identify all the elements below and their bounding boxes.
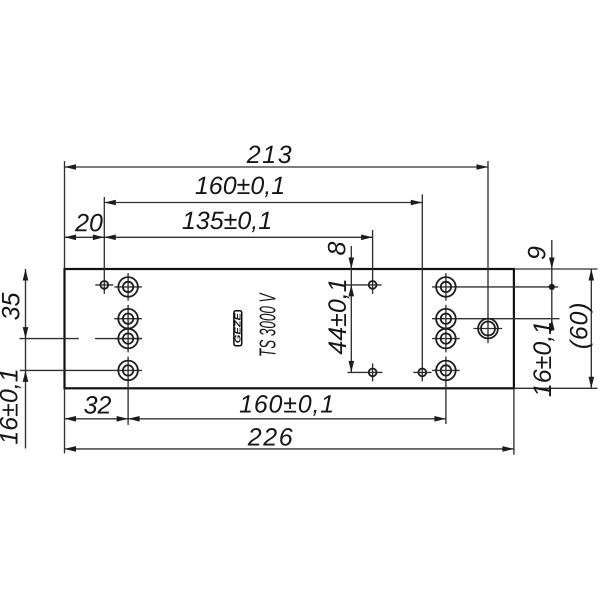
dimension line 60	[590, 269, 592, 388]
extension row2 right	[432, 318, 559, 320]
dimension line 35 and 16 left	[25, 269, 27, 449]
crosshairs left hole column	[114, 286, 142, 288]
dimension line 32 and 160 bottom	[65, 418, 446, 420]
svg-text:226: 226	[247, 423, 295, 451]
crosshair small hole top-left	[95, 284, 113, 286]
svg-text:TS 3000 V: TS 3000 V	[255, 292, 281, 357]
extension line small-hole column left	[103, 197, 105, 294]
extension plate bottom edge right	[514, 387, 598, 389]
extension line right hole column below	[445, 357, 447, 424]
hole right column row2	[436, 309, 456, 329]
svg-text:20: 20	[74, 209, 103, 237]
hole left column row1	[118, 277, 138, 297]
svg-text:(60): (60)	[566, 302, 594, 349]
svg-text:9: 9	[524, 246, 552, 260]
small hole top-mid	[369, 281, 377, 289]
dimension line 20 and 135	[65, 236, 373, 238]
extension line big-circle column	[487, 161, 489, 343]
svg-text:32: 32	[84, 391, 112, 419]
hole right column row3	[436, 329, 456, 349]
hole left column row2	[118, 309, 138, 329]
svg-text:35: 35	[0, 293, 26, 321]
hole right column row4	[436, 361, 456, 381]
dimension line 8 and 44	[350, 246, 352, 372]
hole left column row3	[118, 329, 138, 349]
svg-text:213: 213	[246, 141, 294, 169]
small hole bottom-right	[418, 369, 426, 377]
extension row4 left	[20, 369, 142, 371]
GEZE logo	[233, 311, 243, 346]
centerline small row bottom b	[413, 371, 431, 373]
dimension line 160 top	[104, 202, 422, 204]
extension line right edge below	[513, 388, 515, 454]
crosshair small hole bottom-mid vertical	[372, 363, 374, 381]
dimension line 226	[65, 448, 514, 450]
small hole top-left	[100, 281, 108, 289]
extension line left edge below	[64, 388, 66, 453]
svg-text:GEZE: GEZE	[233, 313, 243, 343]
centerline small row bottom a	[348, 371, 383, 373]
svg-text:8: 8	[324, 241, 352, 255]
dimension line 9 and 16 right	[551, 240, 553, 331]
crosshair big circle horizontal	[474, 328, 503, 330]
extension line small-hole column mid	[372, 230, 374, 294]
svg-text:135±0,1: 135±0,1	[182, 207, 272, 235]
centerline row3 segment a	[20, 338, 79, 340]
big circle	[478, 319, 498, 339]
svg-text:16±0,1: 16±0,1	[529, 321, 557, 397]
centerline small row top	[346, 284, 382, 286]
crosshairs right hole column	[432, 338, 460, 340]
svg-text:160±0,1: 160±0,1	[195, 172, 285, 200]
hole left column row4	[118, 361, 138, 381]
extension line left hole column below	[127, 357, 129, 425]
extension line small-hole column right	[421, 194, 423, 381]
extension plate top edge right	[514, 268, 598, 270]
svg-text:16±0,1: 16±0,1	[0, 368, 24, 444]
extension row1 right	[432, 286, 558, 288]
extension line left edge above	[64, 161, 66, 269]
svg-text:160±0,1: 160±0,1	[239, 390, 335, 418]
centerline row3 segment b	[95, 338, 142, 340]
plate outline	[65, 269, 514, 388]
svg-text:44±0,1: 44±0,1	[324, 278, 352, 354]
small hole bottom-mid	[369, 369, 377, 377]
dimension line 213	[65, 166, 489, 168]
hole right column row1	[436, 277, 456, 297]
